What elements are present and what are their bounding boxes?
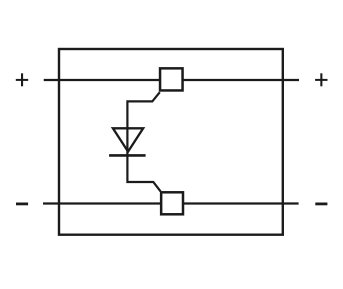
- diode D1 triangle (anode): [113, 128, 143, 151]
- wire internal jog (top terminal to diode to bottom terminal): [127, 92, 160, 191]
- wire - rail (bottom): [43, 202, 299, 204]
- polarity label - (left): [16, 202, 28, 205]
- polarity label + (right): [315, 73, 327, 86]
- device outline box: [59, 49, 283, 235]
- polarity label - (right): [315, 202, 327, 205]
- polarity label + (left): [16, 73, 28, 86]
- terminal clamp square (top, + path): [160, 68, 183, 90]
- diode D1 cathode bar: [109, 154, 146, 157]
- terminal clamp square (bottom, - path): [161, 192, 183, 214]
- wire + rail (top): [44, 79, 299, 81]
